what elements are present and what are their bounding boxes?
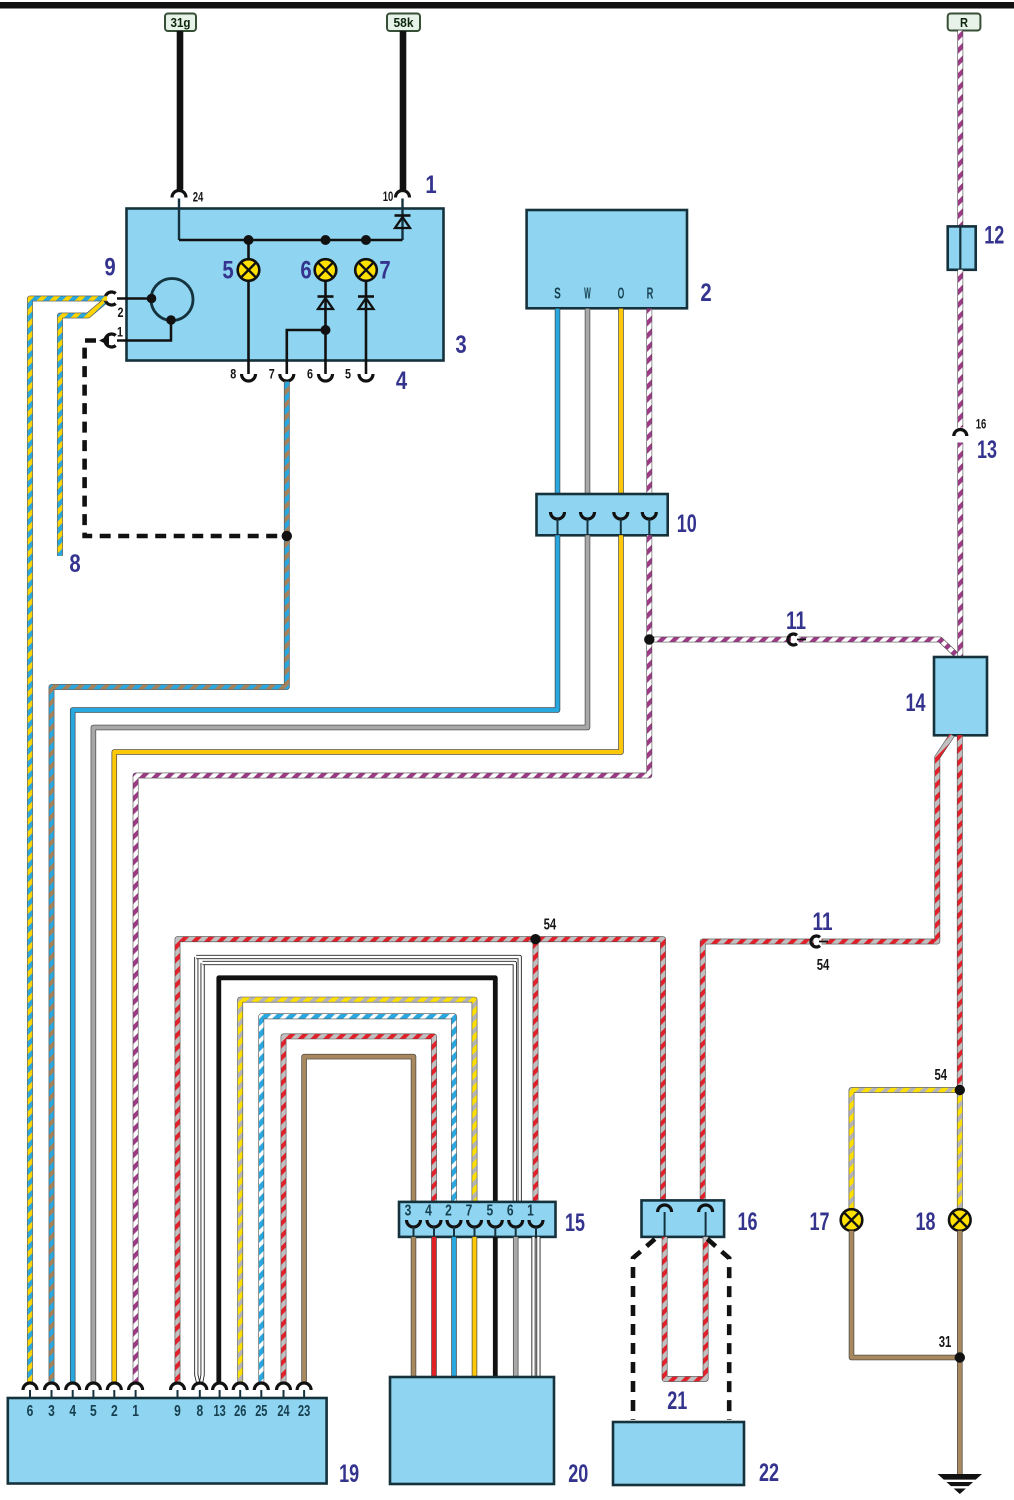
dashed link 16 to 22 left — [633, 1239, 655, 1420]
wire black from 31g to pin 24 — [177, 31, 184, 190]
wire grey/red 14 right leg down — [957, 735, 963, 1090]
lamp 6 — [315, 259, 337, 281]
pin 13 of connector 19 — [213, 1383, 227, 1390]
wire brown lamp17 to junction 31 — [852, 1231, 960, 1358]
svg-text:5: 5 — [222, 257, 233, 285]
svg-text:14: 14 — [906, 689, 926, 717]
dashed link 16 to 22 right — [707, 1239, 729, 1420]
wire blue/white U — [261, 1016, 454, 1383]
svg-text:54: 54 — [935, 1067, 948, 1084]
pin 10 connector — [396, 191, 410, 198]
pin 2 of 16 — [699, 1205, 713, 1212]
svg-text:26: 26 — [234, 1403, 246, 1420]
pin 9 of connector 19 — [171, 1383, 185, 1390]
svg-text:8: 8 — [69, 550, 80, 578]
dashed wire from pin 1 to junction — [85, 341, 284, 537]
pin 7 of box 3 — [280, 374, 294, 381]
svg-text:54: 54 — [544, 917, 557, 934]
internal bus wire — [179, 239, 403, 242]
pin of connector 10 — [551, 512, 565, 519]
pin 5 of box 3 — [359, 374, 373, 381]
node on bus — [321, 235, 331, 245]
wire black from 58k to pin 10 — [400, 31, 407, 190]
svg-text:R: R — [960, 15, 969, 30]
pin 2 connector — [105, 292, 116, 305]
wire brown to 20 — [411, 1237, 417, 1377]
svg-text:1: 1 — [527, 1203, 534, 1220]
svg-text:6: 6 — [307, 367, 313, 382]
flasher relay circle 9 — [151, 279, 193, 321]
svg-text:17: 17 — [810, 1208, 830, 1236]
lamp 18 — [949, 1209, 971, 1231]
node junction 54 — [530, 934, 540, 944]
svg-text:7: 7 — [269, 367, 275, 382]
svg-text:7: 7 — [379, 257, 390, 285]
wire grey W — [585, 309, 591, 512]
jumper wire 21 grey/red — [665, 1237, 706, 1379]
pin 8 of connector 19 — [193, 1383, 207, 1390]
svg-text:3: 3 — [455, 331, 466, 359]
wire brown lamp18 to ground — [957, 1231, 963, 1474]
wire white 1 — [196, 957, 519, 1214]
svg-text:6: 6 — [300, 257, 311, 285]
wire to pin 6 — [324, 330, 327, 374]
svg-text:5: 5 — [90, 1403, 97, 1420]
svg-text:9: 9 — [174, 1403, 181, 1420]
svg-text:31g: 31g — [171, 15, 191, 30]
wire cyan to 19 pin 4 — [73, 535, 558, 1383]
wire red to 20 — [431, 1237, 437, 1377]
svg-text:18: 18 — [916, 1208, 936, 1236]
wire purple/white to unit 14 — [649, 637, 791, 643]
node junction 54 right — [955, 1085, 965, 1095]
diode under lamp 7 — [365, 281, 368, 374]
pin 24 of connector 19 — [277, 1383, 291, 1390]
pin 8 of box 3 — [242, 374, 256, 381]
wire white 2 left leg — [201, 963, 203, 1385]
wire grey/red 14 to horizontal run and 16 pin2 — [822, 735, 953, 941]
svg-text:20: 20 — [568, 1460, 588, 1488]
pin 26 of connector 19 — [233, 1383, 247, 1390]
svg-text:16: 16 — [738, 1208, 758, 1236]
wire black U — [219, 978, 496, 1383]
pin 23 of connector 19 — [297, 1383, 311, 1390]
diode at pin 10 — [401, 214, 403, 240]
terminal label 58k — [387, 14, 420, 32]
connector 10 — [537, 494, 668, 535]
top power rail bar — [0, 2, 1014, 9]
lamp 5 — [247, 240, 250, 260]
svg-text:6: 6 — [507, 1203, 514, 1220]
svg-text:23: 23 — [298, 1403, 310, 1420]
svg-text:12: 12 — [984, 222, 1004, 250]
pin 4 of connector 15 — [427, 1220, 441, 1227]
svg-text:11: 11 — [813, 908, 833, 936]
node under diode 6 — [321, 325, 331, 335]
node on circle left — [147, 294, 157, 304]
svg-text:3: 3 — [48, 1403, 55, 1420]
svg-text:24: 24 — [193, 190, 204, 205]
pin 1 of connector 15 — [529, 1220, 543, 1227]
fuse 12 — [948, 226, 976, 269]
pin 25 of connector 19 — [254, 1383, 268, 1390]
wire black to 20 — [493, 1237, 498, 1377]
svg-text:5: 5 — [345, 367, 351, 382]
svg-text:22: 22 — [759, 1459, 779, 1487]
wire purple/white R — [646, 309, 652, 512]
pin 3 of connector 19 — [45, 1383, 59, 1390]
node on circle bottom — [166, 315, 176, 325]
lamp 17 — [841, 1209, 863, 1231]
svg-text:4: 4 — [396, 367, 407, 395]
ground symbol — [938, 1474, 983, 1494]
svg-text:S: S — [554, 286, 561, 303]
wire grey/red U — [284, 1036, 435, 1383]
pin 7 of connector 15 — [468, 1220, 482, 1227]
connector 15 — [399, 1202, 556, 1237]
inline connector 13 — [954, 430, 967, 436]
instrument cluster box 3 — [127, 209, 444, 361]
pin 2 of connector 19 — [107, 1383, 121, 1390]
svg-text:5: 5 — [486, 1203, 493, 1220]
svg-text:10: 10 — [383, 189, 394, 204]
pin of connector 10 — [642, 512, 656, 519]
svg-text:8: 8 — [230, 367, 236, 382]
wire yellow/grey to lamp 17 — [852, 1090, 960, 1209]
pin 6 of connector 15 — [509, 1220, 523, 1227]
svg-text:19: 19 — [339, 1460, 359, 1488]
wire 8 yellow/blue stub — [60, 302, 104, 556]
svg-text:W: W — [584, 286, 591, 303]
node on bus — [361, 235, 371, 245]
wire lamp5 to pin 8 — [247, 281, 250, 374]
connector 16 — [642, 1200, 725, 1237]
svg-text:2: 2 — [118, 305, 124, 320]
inline connector 11 purple — [788, 634, 797, 645]
wire white pair to 20 — [531, 1237, 535, 1377]
node dashed junction — [282, 531, 292, 541]
svg-text:25: 25 — [255, 1403, 267, 1420]
relay 14 — [934, 657, 987, 735]
pin 4 of connector 19 — [66, 1383, 80, 1390]
pin 6 of box 3 — [319, 374, 333, 381]
svg-text:13: 13 — [214, 1403, 226, 1420]
svg-text:54: 54 — [817, 957, 830, 974]
wire cyan to 20 — [451, 1237, 457, 1377]
wire grey/red branch to 15 pin 1 — [533, 939, 539, 1214]
node on bus — [244, 235, 254, 245]
pin of connector 10 — [614, 512, 628, 519]
pin of connector 10 — [581, 512, 595, 519]
wire blue/brown from box3 pin7 to 19 pin 3 — [52, 382, 287, 1384]
svg-text:3: 3 — [405, 1203, 412, 1220]
wire purple/white to 19 pin 1 — [136, 535, 650, 1383]
svg-text:58k: 58k — [394, 15, 415, 30]
wire cyan S — [555, 309, 561, 512]
pin 1 of 16 — [658, 1205, 672, 1212]
wire yellow/grey U — [240, 1000, 474, 1383]
wire grey to 19 pin 5 — [93, 535, 587, 1383]
wire grey/red from 19 pin 9 to 16 pin 1 — [178, 939, 664, 1383]
svg-text:R: R — [647, 286, 654, 303]
svg-text:16: 16 — [976, 417, 987, 432]
diode under lamp 6 — [324, 281, 327, 330]
svg-text:2: 2 — [700, 279, 711, 307]
pin 5 of connector 19 — [86, 1383, 100, 1390]
svg-text:10: 10 — [677, 510, 697, 538]
connector 19 — [8, 1398, 327, 1484]
svg-text:11: 11 — [786, 607, 806, 635]
wire yellow/blue from pin2 down left side to 19 pin 6 — [30, 299, 107, 1384]
svg-text:15: 15 — [565, 1209, 585, 1237]
inline connector 11 red — [811, 936, 820, 947]
terminal label R — [948, 14, 981, 31]
svg-text:24: 24 — [277, 1403, 289, 1420]
svg-text:1: 1 — [132, 1403, 139, 1420]
wire white 1 left leg — [196, 957, 199, 1385]
node purple junction — [644, 634, 654, 644]
wire brown U — [304, 1057, 413, 1383]
svg-text:21: 21 — [667, 1387, 687, 1415]
pin 1 of connector 19 — [129, 1383, 143, 1390]
wire node to pin 2 — [117, 297, 152, 300]
svg-text:6: 6 — [27, 1403, 34, 1420]
svg-text:1: 1 — [117, 325, 123, 340]
svg-text:4: 4 — [425, 1203, 432, 1220]
wire grey to 20 — [513, 1237, 519, 1377]
wire branch to pin 7 — [287, 330, 326, 374]
svg-text:O: O — [618, 286, 625, 303]
wire purple/white 13 to 14 — [957, 443, 963, 658]
wire yellow O — [618, 309, 624, 512]
lamp 7 — [355, 259, 377, 281]
svg-text:31: 31 — [939, 1334, 952, 1351]
svg-text:2: 2 — [445, 1203, 452, 1220]
node junction 31 — [955, 1352, 965, 1362]
pin 1 connector with arrow — [105, 334, 116, 347]
svg-text:13: 13 — [977, 436, 997, 464]
wire yellow to 20 — [472, 1237, 478, 1377]
pin 5 of connector 15 — [488, 1220, 502, 1227]
svg-text:2: 2 — [111, 1403, 118, 1420]
pin 6 of connector 19 — [23, 1383, 37, 1390]
wire yellow/grey to lamp 18 — [957, 1090, 963, 1209]
svg-text:8: 8 — [196, 1403, 203, 1420]
wire white 2 — [203, 963, 515, 1214]
switch box 2 — [527, 210, 687, 308]
wire yellow to 19 pin 2 — [114, 535, 621, 1383]
wire purple/white 12 to 13 — [957, 270, 963, 428]
terminal label 31g — [165, 14, 196, 32]
svg-text:7: 7 — [466, 1203, 473, 1220]
svg-text:4: 4 — [69, 1403, 76, 1420]
unit 22 — [613, 1422, 744, 1485]
control unit 20 — [390, 1377, 554, 1484]
svg-text:1: 1 — [425, 171, 436, 199]
wire node to pin 1 — [117, 320, 171, 341]
svg-text:9: 9 — [104, 254, 115, 282]
pin 24 connector — [172, 191, 186, 198]
pin 3 of connector 15 — [407, 1220, 421, 1227]
pin 2 of connector 15 — [447, 1220, 461, 1227]
wire purple/white from R — [957, 31, 963, 227]
